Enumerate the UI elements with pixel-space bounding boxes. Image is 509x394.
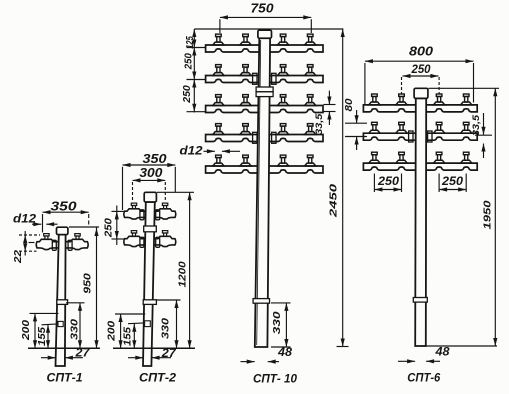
- svg-text:200: 200: [21, 320, 32, 341]
- svg-text:250: 250: [184, 53, 195, 70]
- svg-text:350: 350: [143, 152, 167, 166]
- svg-text:155: 155: [122, 327, 133, 346]
- svg-text:250: 250: [411, 64, 432, 76]
- svg-text:800: 800: [409, 44, 433, 58]
- svg-text:250: 250: [377, 176, 400, 188]
- svg-text:155: 155: [37, 327, 48, 346]
- svg-text:250: 250: [182, 85, 193, 104]
- svg-text:СПТ-1: СПТ-1: [47, 373, 83, 385]
- svg-text:300: 300: [139, 166, 162, 180]
- svg-text:33,5: 33,5: [314, 113, 325, 135]
- svg-text:125: 125: [185, 36, 196, 49]
- svg-text:250: 250: [104, 218, 115, 238]
- svg-text:33,5: 33,5: [471, 114, 482, 136]
- svg-text:48: 48: [277, 347, 293, 359]
- svg-text:СПТ-2: СПТ-2: [139, 373, 177, 385]
- svg-text:950: 950: [83, 273, 94, 294]
- svg-text:330: 330: [161, 318, 172, 339]
- svg-text:22: 22: [13, 250, 24, 264]
- svg-text:СПТ-6: СПТ-6: [407, 372, 441, 384]
- svg-text:250: 250: [441, 176, 464, 188]
- svg-text:1200: 1200: [178, 261, 189, 287]
- svg-text:750: 750: [251, 2, 274, 16]
- svg-text:80: 80: [344, 98, 355, 111]
- svg-text:d12: d12: [13, 211, 36, 225]
- svg-text:27: 27: [161, 348, 177, 360]
- svg-text:СПТ- 10: СПТ- 10: [253, 373, 298, 385]
- svg-text:48: 48: [434, 347, 450, 359]
- svg-text:330: 330: [272, 311, 283, 334]
- svg-text:330: 330: [70, 319, 81, 340]
- svg-text:2450: 2450: [329, 184, 340, 219]
- svg-text:d12: d12: [180, 143, 203, 157]
- svg-text:200: 200: [107, 321, 118, 342]
- svg-text:27: 27: [74, 347, 90, 359]
- svg-text:350: 350: [51, 200, 77, 214]
- svg-text:1950: 1950: [483, 200, 494, 229]
